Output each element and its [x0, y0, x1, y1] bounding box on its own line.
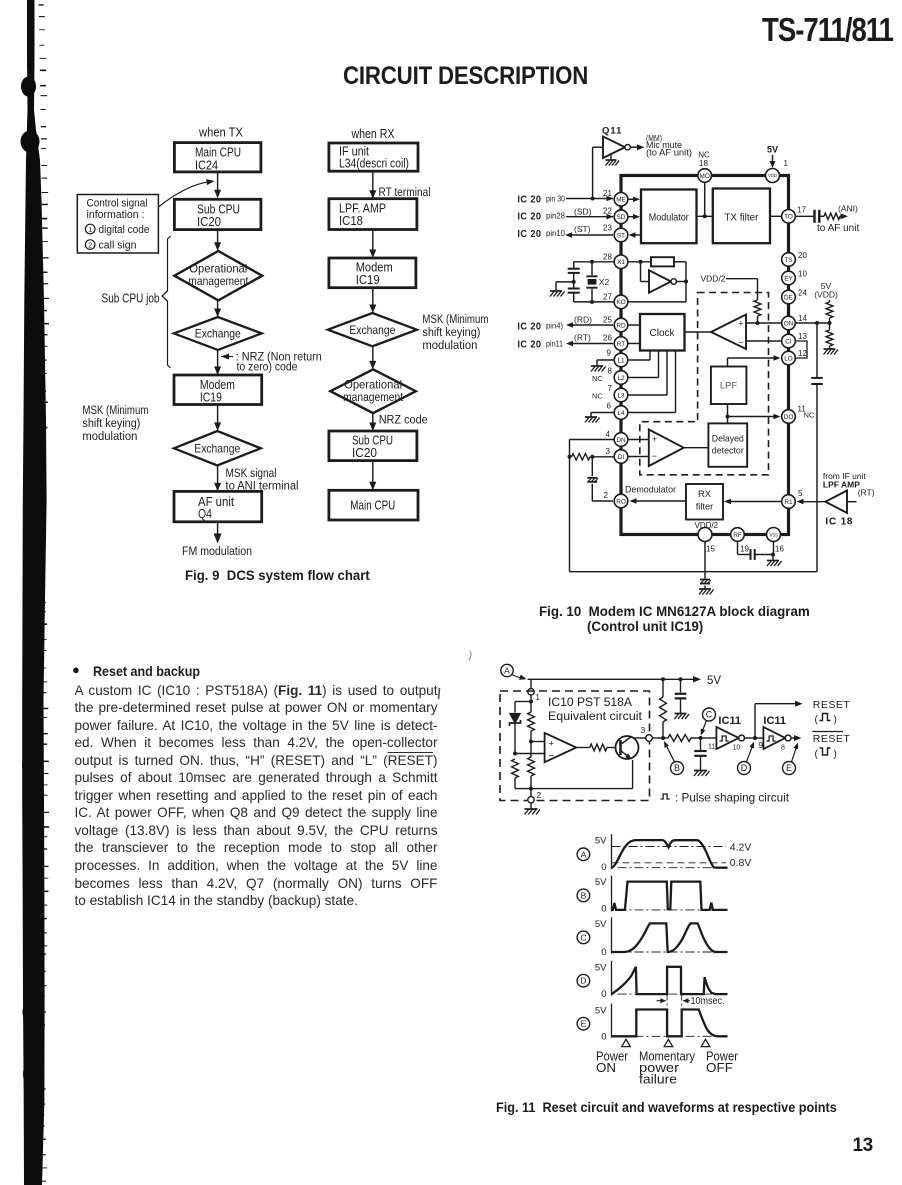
- wire node3 to node B and RC: [652, 737, 663, 739]
- svg-text:X1: X1: [617, 259, 625, 266]
- caption Fig. 9: [185, 568, 370, 584]
- waveform row E axis and labels: [577, 1017, 590, 1030]
- svg-text:B: B: [581, 890, 587, 900]
- svg-text:1: 1: [88, 227, 92, 234]
- wire comparator to Clock: [685, 331, 712, 333]
- svg-text:Exchange: Exchange: [194, 442, 240, 456]
- svg-text:−: −: [652, 451, 657, 461]
- svg-text:(VDD): (VDD): [814, 290, 838, 300]
- page heading CIRCUIT DESCRIPTION: [343, 62, 588, 91]
- svg-text:pin 30: pin 30: [546, 194, 565, 204]
- fig9 wire to Exchange: [217, 300, 219, 315]
- pin ME: [614, 193, 628, 207]
- svg-text:RF: RF: [733, 532, 742, 539]
- event marker triangle Power ON: [622, 1039, 631, 1046]
- fig9 diamond Exchange 2: [174, 431, 261, 466]
- wire KO to feedback: [628, 301, 686, 303]
- svg-text:IC19: IC19: [356, 272, 380, 287]
- fig9 brace Sub CPU job: [162, 236, 171, 368]
- caption Fig. 11: [496, 1100, 837, 1116]
- waveform row B axis and labels: [577, 889, 590, 902]
- svg-text:IC 20: IC 20: [517, 228, 541, 240]
- svg-text:NC: NC: [804, 411, 815, 420]
- svg-text:Equivalent circuit: Equivalent circuit: [548, 711, 643, 723]
- svg-text:OFF: OFF: [706, 1060, 733, 1075]
- oscillator inverter: [640, 262, 642, 282]
- scan artifact marks: [439, 651, 472, 699]
- svg-text:5V: 5V: [595, 877, 607, 888]
- svg-text:10msec.: 10msec.: [691, 996, 725, 1007]
- svg-text:(SD): (SD): [574, 207, 592, 217]
- svg-text:A: A: [581, 849, 587, 859]
- svg-text:13: 13: [798, 332, 807, 341]
- capacitor DI to RO net: [591, 457, 593, 476]
- svg-text:L34(descri coil): L34(descri coil): [339, 156, 409, 171]
- ground for load capacitors: [556, 281, 574, 283]
- wire inverter a to node 9: [745, 737, 756, 739]
- svg-text:shift keying): shift keying): [422, 325, 480, 339]
- svg-text:to AF unit: to AF unit: [817, 223, 859, 234]
- svg-text:R1: R1: [784, 499, 793, 506]
- fig9 arrow FM modulation: [217, 522, 219, 540]
- svg-text:MO: MO: [700, 173, 710, 180]
- wire ME to Modulator: [628, 198, 633, 200]
- svg-text:5V: 5V: [595, 835, 607, 846]
- feedback loop DN to ON node: [570, 439, 615, 441]
- pull-up resistor from 5V: [661, 677, 665, 681]
- fig9 wire IF unit to LPF AMP, RT terminal: [372, 171, 374, 197]
- svg-text:Modulator: Modulator: [649, 212, 690, 223]
- svg-text:1: 1: [536, 693, 541, 702]
- node D (circled): [738, 762, 751, 775]
- wire LPF to LO: [727, 358, 729, 367]
- comparator (limiter amp): [711, 315, 746, 350]
- waveform row C axis and labels: [577, 931, 590, 944]
- svg-text:10: 10: [733, 745, 741, 752]
- svg-text:5V: 5V: [595, 919, 607, 930]
- svg-text:2: 2: [604, 491, 609, 500]
- svg-text:0: 0: [601, 862, 606, 873]
- wire RX filter to RO: [636, 500, 686, 502]
- svg-text:B: B: [674, 763, 680, 773]
- svg-text:(RT): (RT): [858, 488, 875, 498]
- RESET output (H): [754, 704, 756, 738]
- divider resistor R-b (+ to bottom): [530, 742, 532, 758]
- svg-text:25: 25: [603, 316, 612, 325]
- svg-text:L1: L1: [617, 357, 625, 364]
- svg-text:LPF AMP: LPF AMP: [823, 480, 860, 490]
- svg-text:C: C: [706, 710, 713, 720]
- pin TO (17): [782, 210, 796, 224]
- svg-text:IC11: IC11: [718, 715, 741, 727]
- svg-text:2: 2: [537, 790, 542, 800]
- svg-text:shift keying): shift keying): [82, 416, 140, 430]
- fig9 wire to Sub CPU right: [372, 413, 374, 430]
- svg-text:22: 22: [603, 206, 612, 215]
- input resistor at DI: [594, 456, 614, 458]
- fig9 box Modem IC19: [174, 375, 262, 405]
- svg-text:IC 20: IC 20: [517, 193, 541, 205]
- timing capacitor at C: [700, 738, 702, 750]
- svg-text:15: 15: [706, 545, 715, 554]
- base resistor to Q: [576, 747, 590, 749]
- svg-text:19: 19: [740, 545, 749, 554]
- demodulator comparator: [649, 430, 684, 467]
- svg-text:MSK (Minimum: MSK (Minimum: [422, 312, 488, 326]
- svg-text:ME: ME: [616, 197, 626, 204]
- svg-text:RESET: RESET: [813, 733, 851, 745]
- svg-text:MSK (Minimum: MSK (Minimum: [82, 403, 148, 417]
- crystal X2: [591, 262, 593, 275]
- resistor to AF unit: [824, 213, 840, 219]
- bracket CI to LO: [795, 341, 808, 358]
- fig9 wire Modem to Exchange right: [372, 288, 374, 312]
- fig9 box IF unit L34: [329, 143, 418, 171]
- load capacitor C-a: [573, 262, 575, 269]
- svg-text:2: 2: [88, 243, 92, 250]
- oscillator feedback resistor: [628, 261, 651, 263]
- wire X1 to load capacitors: [574, 261, 614, 263]
- svg-text:IC 18: IC 18: [825, 517, 853, 528]
- waveform row D axis and labels: [577, 974, 590, 987]
- node minus input tap: [513, 752, 517, 756]
- pin ST: [614, 228, 628, 242]
- svg-text:RD: RD: [616, 322, 626, 329]
- svg-text:TO: TO: [784, 214, 793, 221]
- svg-text:ON: ON: [596, 1060, 616, 1075]
- waveform row A axis and labels: [577, 848, 590, 861]
- zener diode in IC10: [515, 701, 531, 703]
- wire LPF to DO and Delayed detector: [727, 404, 729, 423]
- wire Q11 input from ME net: [593, 146, 603, 148]
- node pin 2 with ground: [530, 789, 532, 797]
- wire Modulator to TX filter with MO tap: [697, 215, 713, 217]
- svg-text:): ): [834, 715, 837, 726]
- block RX filter: [686, 484, 723, 520]
- dashed box IC10 equivalent circuit: [500, 691, 650, 801]
- svg-text:IC 20: IC 20: [517, 211, 541, 223]
- svg-text:to zero) code: to zero) code: [237, 359, 298, 373]
- node pin 1 of IC10: [530, 679, 532, 688]
- 5V supply rail: [528, 678, 696, 680]
- wire SD to Modulator: [628, 216, 633, 218]
- svg-text:27: 27: [603, 293, 612, 302]
- svg-text:5V: 5V: [595, 1005, 607, 1016]
- svg-text:Control signal: Control signal: [87, 197, 148, 209]
- pin ON (14) wire to comparator +: [746, 322, 782, 324]
- svg-text:0: 0: [601, 989, 606, 1000]
- svg-text:7: 7: [608, 384, 613, 393]
- wire to IC11 first inverter: [701, 737, 717, 739]
- svg-text:VDD: VDD: [768, 173, 777, 178]
- svg-text:DO: DO: [784, 414, 794, 421]
- pin TS (20): [782, 253, 796, 267]
- fig9 wire Main CPU to Sub CPU: [217, 172, 219, 197]
- fig9 wire LPF AMP to Modem: [372, 230, 374, 257]
- svg-text:5V: 5V: [767, 145, 778, 155]
- dashed demodulator section outline: [640, 293, 769, 475]
- threshold line 4.2V: [612, 846, 727, 848]
- pin Vss (16): [767, 528, 781, 542]
- svg-text:LO: LO: [784, 355, 793, 362]
- svg-text:8: 8: [608, 367, 613, 376]
- svg-text:RT terminal: RT terminal: [379, 185, 431, 199]
- svg-text:EY: EY: [784, 275, 793, 282]
- svg-text:RO: RO: [616, 498, 626, 505]
- svg-text:ON: ON: [784, 320, 794, 327]
- block Clock: [640, 314, 685, 351]
- svg-text:LPF: LPF: [720, 381, 738, 392]
- wires RD RT to Clock: [628, 324, 640, 326]
- svg-text:RESET: RESET: [813, 699, 851, 711]
- svg-text:−: −: [738, 338, 743, 348]
- svg-text:Demodulator: Demodulator: [625, 485, 676, 496]
- svg-text:KO: KO: [616, 299, 625, 306]
- pin RF (19): [731, 528, 745, 542]
- svg-text:detector: detector: [712, 446, 744, 456]
- svg-text:Exchange: Exchange: [195, 327, 241, 341]
- svg-text:information :: information :: [87, 209, 145, 221]
- svg-text:23: 23: [603, 223, 612, 232]
- section bullet Reset and backup: [72, 662, 80, 677]
- svg-text:1: 1: [784, 159, 789, 168]
- fig9 box Main CPU right: [329, 490, 418, 520]
- resistor below zener: [512, 759, 519, 778]
- svg-text:CI: CI: [785, 338, 792, 345]
- svg-text:digital code: digital code: [99, 224, 150, 236]
- pin CI: [782, 334, 796, 348]
- svg-text:8: 8: [781, 745, 785, 752]
- annotation 10msec: [666, 995, 668, 1010]
- fig9 diamond Operational management right: [330, 369, 415, 413]
- fig9 wire Exchange to Modem: [217, 350, 219, 374]
- fig9 wire Sub CPU to Main CPU right: [372, 461, 374, 489]
- node E (circled): [783, 762, 796, 775]
- svg-text:pin11: pin11: [546, 338, 563, 348]
- svg-text:+: +: [738, 319, 743, 329]
- svg-text:5V: 5V: [595, 963, 607, 974]
- emitter return wire: [632, 760, 634, 789]
- svg-text:L4: L4: [617, 410, 625, 417]
- svg-text:(to AF unit): (to AF unit): [646, 148, 692, 158]
- svg-text:RT: RT: [617, 341, 625, 348]
- fig9 diamond Exchange right: [328, 313, 417, 346]
- fig9 wire Sub CPU to Operational management: [217, 230, 219, 250]
- pin SD: [614, 210, 628, 224]
- svg-text:C: C: [580, 932, 586, 942]
- fig9 box AF unit Q4: [174, 491, 262, 521]
- svg-text:Delayed: Delayed: [712, 434, 744, 444]
- svg-text:Sub CPU job: Sub CPU job: [102, 292, 160, 306]
- event marker triangle Power OFF: [701, 1039, 710, 1046]
- svg-text:+: +: [652, 434, 657, 444]
- fig9 diamond Exchange: [174, 317, 262, 350]
- svg-text:when TX: when TX: [198, 126, 243, 140]
- svg-text:IC20: IC20: [352, 445, 377, 460]
- pin VDD (1): [766, 169, 780, 183]
- svg-text:VDD/2: VDD/2: [701, 274, 726, 284]
- pin DO (11 NC): [782, 410, 796, 424]
- svg-text:10: 10: [798, 270, 807, 279]
- svg-text:IC 20: IC 20: [517, 339, 541, 351]
- pin CI (13) wire to comparator -: [746, 340, 782, 342]
- fig9 box Modem IC19 right: [329, 258, 416, 288]
- node A (circled): [501, 664, 513, 676]
- svg-text:SD: SD: [617, 214, 626, 221]
- svg-text:ST: ST: [617, 232, 625, 239]
- svg-text:RX: RX: [698, 489, 711, 499]
- IC19 chip boundary (MN6127A): [621, 176, 789, 535]
- output coupling capacitor to ANI: [796, 215, 814, 217]
- wire R1 to RX filter: [730, 501, 782, 503]
- page binding strip (scan artifact): [22, 0, 46, 1185]
- svg-text:pin4): pin4): [546, 320, 563, 330]
- svg-text:DN: DN: [616, 437, 626, 444]
- pin ON: [782, 316, 796, 330]
- fig9 annotation NRZ code: [221, 354, 229, 360]
- svg-text:TX filter: TX filter: [724, 212, 759, 223]
- svg-text:5V: 5V: [707, 675, 721, 687]
- wire Modulator to ST: [635, 234, 641, 236]
- svg-text:Clock: Clock: [650, 328, 675, 339]
- fig9 box Sub CPU IC20: [174, 199, 261, 229]
- svg-text:DE: DE: [784, 294, 793, 301]
- svg-text:IC20: IC20: [197, 214, 221, 229]
- svg-text:D: D: [741, 763, 748, 773]
- fig9 callout box: Control signal information: [77, 195, 158, 254]
- svg-text:FM modulation: FM modulation: [182, 544, 252, 558]
- divider resistor R-a (pin1 to +): [530, 702, 532, 713]
- svg-text:−: −: [549, 751, 555, 762]
- svg-text:IC11: IC11: [763, 715, 786, 727]
- svg-text:16: 16: [775, 545, 784, 554]
- waveform E trace: [612, 1010, 728, 1037]
- fig9 box Main CPU IC24: [174, 143, 261, 172]
- svg-text:18: 18: [699, 159, 708, 168]
- svg-text:management: management: [188, 274, 249, 288]
- svg-text:L2: L2: [617, 375, 625, 382]
- pin RD (25): [614, 318, 628, 332]
- wire TX filter to TO: [770, 215, 782, 217]
- svg-text:filter: filter: [696, 502, 714, 512]
- svg-text:D: D: [580, 976, 586, 986]
- svg-text:0: 0: [601, 904, 606, 915]
- svg-text:: Pulse shaping circuit: : Pulse shaping circuit: [675, 791, 790, 805]
- svg-text:call sign: call sign: [99, 240, 137, 252]
- svg-text:): ): [834, 749, 837, 760]
- svg-text:(: (: [815, 715, 819, 726]
- svg-text:0: 0: [601, 1032, 606, 1043]
- svg-text:DI: DI: [618, 454, 625, 461]
- threshold line 0.8V: [612, 862, 727, 864]
- coupling capacitor in feedback loop: [811, 377, 822, 379]
- block Modulator: [641, 190, 697, 244]
- series resistor to C node: [668, 735, 691, 742]
- svg-text:4: 4: [606, 430, 611, 439]
- svg-text:when RX: when RX: [351, 127, 395, 141]
- fig9 wire Modem to Exchange 2: [217, 405, 219, 430]
- svg-text:X2: X2: [599, 277, 610, 287]
- svg-text:(RD): (RD): [574, 315, 592, 325]
- svg-text:Vss: Vss: [769, 532, 778, 538]
- fig9 diamond Operational management: [174, 251, 262, 300]
- page number 13: [853, 1135, 873, 1157]
- svg-text:9: 9: [607, 349, 612, 358]
- svg-text:NC: NC: [592, 392, 603, 401]
- svg-text:management: management: [343, 390, 404, 404]
- svg-text:IC18: IC18: [339, 213, 363, 228]
- svg-text:A: A: [504, 665, 510, 675]
- svg-text:20: 20: [798, 251, 807, 260]
- svg-text:0.8V: 0.8V: [730, 857, 752, 869]
- pin LO (12): [782, 351, 796, 365]
- event marker triangle Momentary failure: [664, 1039, 673, 1046]
- svg-text:(RT): (RT): [574, 333, 591, 343]
- block LPF: [711, 367, 747, 405]
- svg-text:Q11: Q11: [602, 126, 622, 137]
- svg-text:IC24: IC24: [195, 157, 218, 172]
- waveform B trace: [612, 882, 728, 910]
- block Delayed detector: [708, 423, 747, 466]
- pin EY (10): [782, 271, 796, 285]
- svg-text:failure: failure: [639, 1072, 677, 1087]
- svg-text:IC 20: IC 20: [517, 321, 541, 333]
- svg-text:L3: L3: [617, 392, 625, 399]
- svg-text:Main CPU: Main CPU: [350, 498, 395, 513]
- svg-text:12: 12: [798, 349, 807, 358]
- svg-text:NC: NC: [592, 374, 603, 383]
- op-amp comparator in IC10: [545, 733, 577, 762]
- svg-text:E: E: [581, 1019, 587, 1029]
- svg-text:26: 26: [603, 334, 612, 343]
- waveform C trace: [612, 923, 728, 952]
- svg-text:14: 14: [798, 314, 807, 323]
- capacitor RF to Vss ground: [737, 542, 739, 555]
- block TX filter: [713, 189, 770, 244]
- svg-text:(: (: [815, 749, 819, 760]
- waveform A trace: [612, 840, 728, 868]
- svg-text:21: 21: [603, 189, 612, 198]
- load capacitor C-b: [573, 282, 575, 288]
- pin R1 (5): [782, 495, 796, 509]
- svg-text:17: 17: [797, 206, 806, 215]
- svg-text:modulation: modulation: [422, 338, 477, 352]
- svg-text:IC10 PST 518A: IC10 PST 518A: [548, 697, 632, 709]
- paragraph reset description: [75, 682, 438, 910]
- svg-text:28: 28: [603, 253, 612, 262]
- fig9 box LPF AMP IC18: [329, 199, 417, 230]
- svg-text:IC19: IC19: [200, 389, 222, 404]
- svg-text:5: 5: [798, 489, 803, 498]
- svg-text:TS: TS: [784, 257, 792, 264]
- svg-text:6: 6: [607, 402, 612, 411]
- pin RT (26): [614, 337, 628, 351]
- node C (circled): [703, 708, 716, 721]
- svg-text:pin10: pin10: [546, 228, 565, 238]
- caption Fig. 10: [539, 605, 810, 635]
- fig9 curved arrow from callout to wire: [158, 182, 209, 207]
- svg-text:pin28: pin28: [546, 211, 565, 221]
- fig9 wire Exchange to Operational management right: [372, 346, 374, 368]
- fig9 wire Exchange 2 to AF unit: [217, 466, 219, 491]
- waveform D trace: [612, 967, 728, 994]
- svg-text:modulation: modulation: [82, 429, 137, 443]
- svg-text:Q4: Q4: [198, 506, 212, 521]
- svg-text:NRZ code: NRZ code: [379, 412, 428, 426]
- collector to node 3: [634, 737, 646, 739]
- svg-text:(ST): (ST): [574, 224, 591, 234]
- svg-text:3: 3: [641, 725, 646, 735]
